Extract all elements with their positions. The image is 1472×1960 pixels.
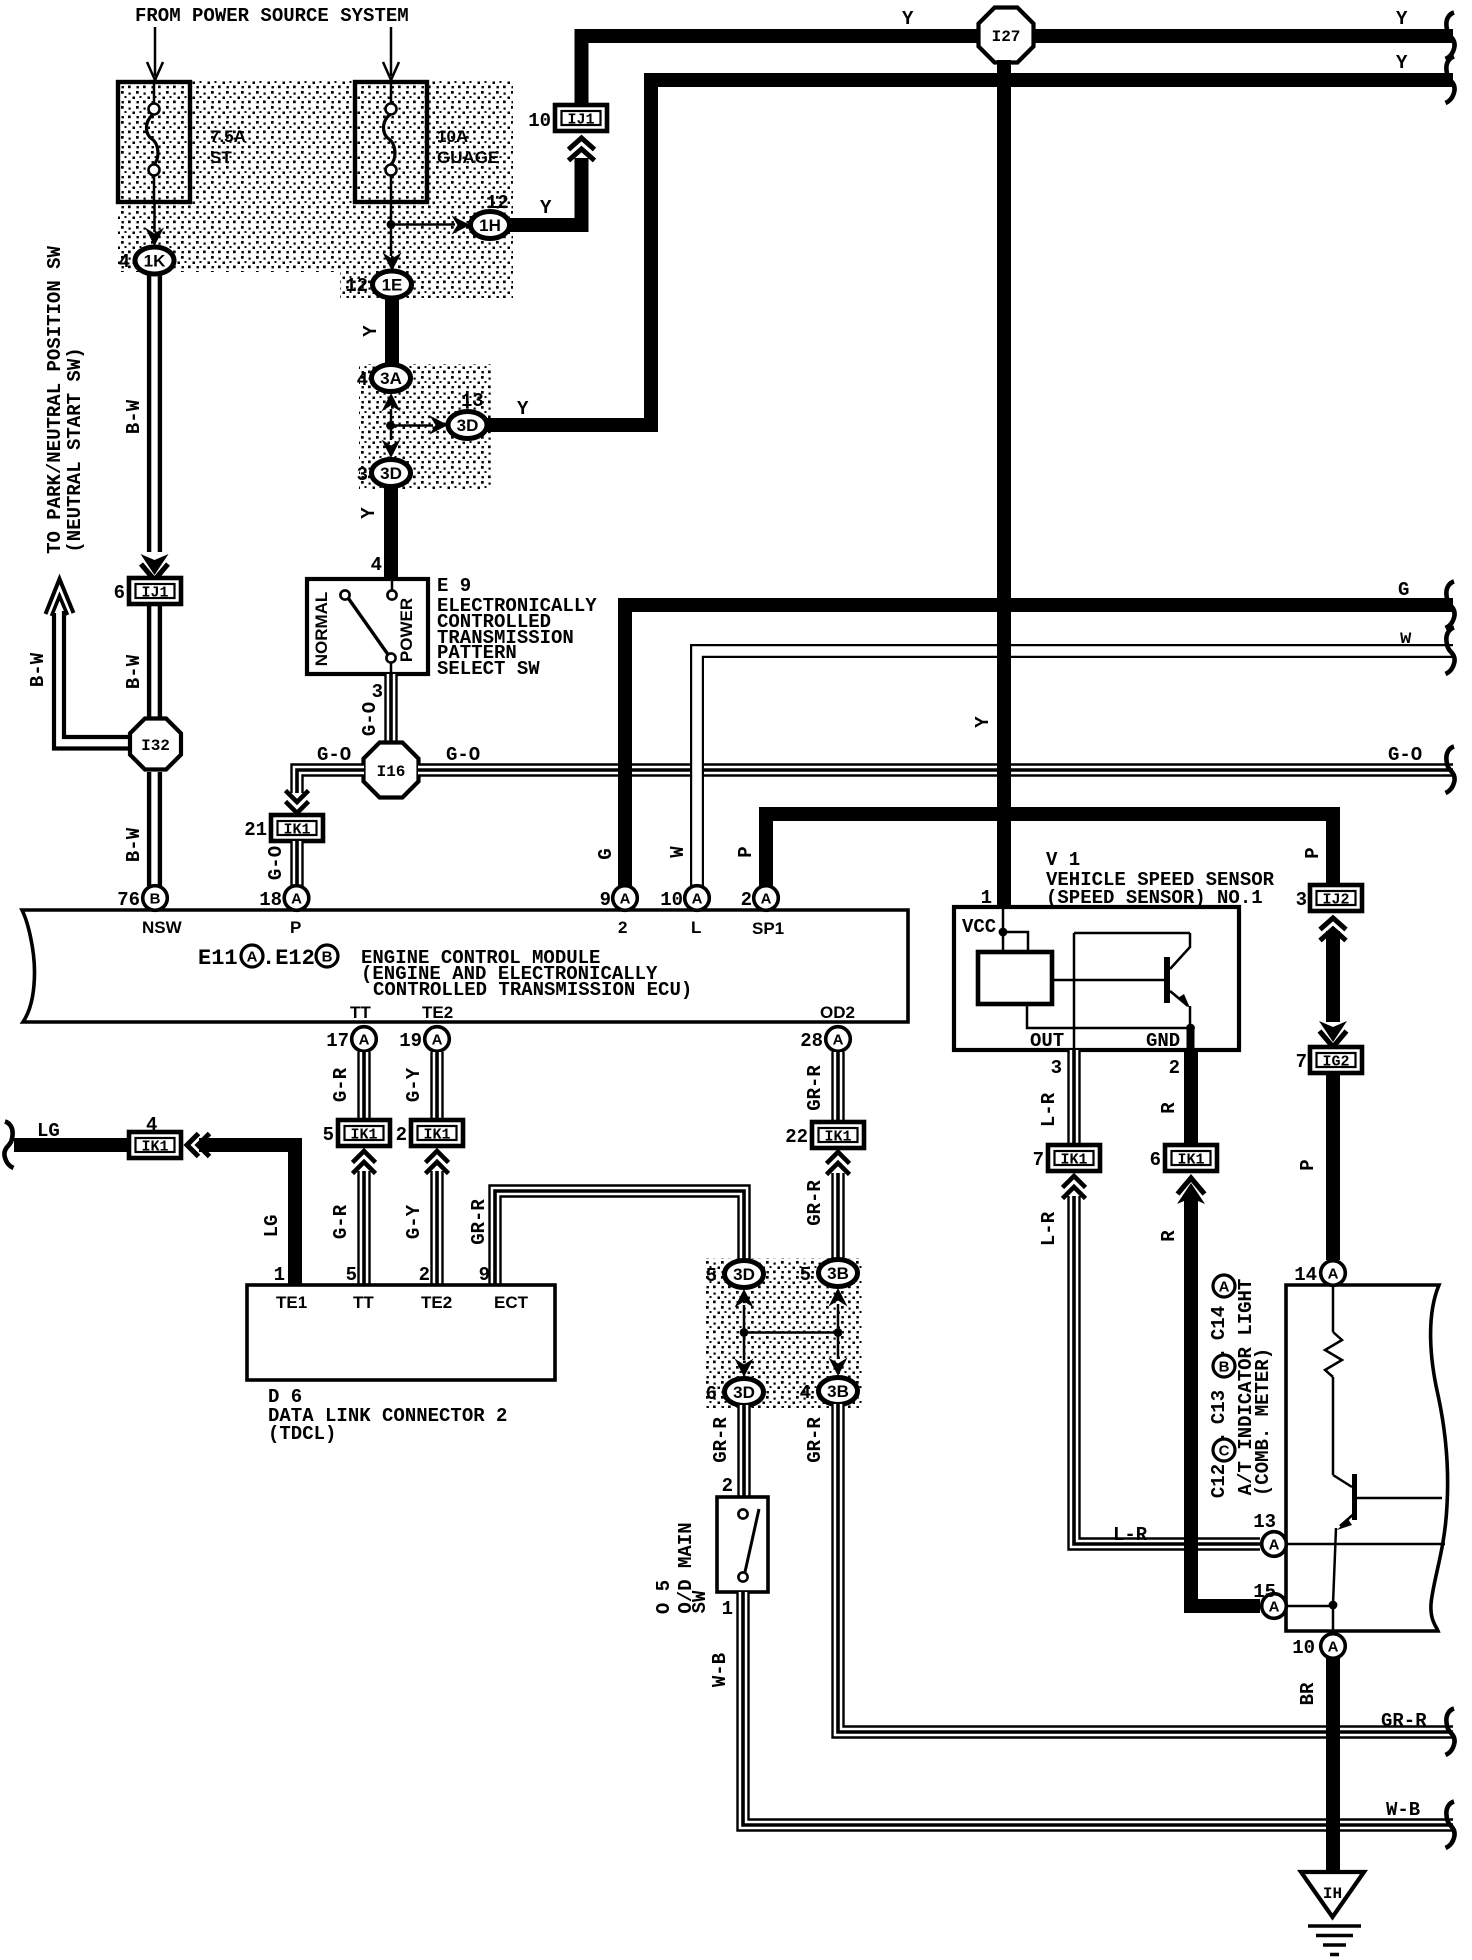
brace at right end of W bbox=[1446, 628, 1455, 675]
wire W-B from O/D main sw to right edge bbox=[743, 1592, 1453, 1825]
svg-text:1K: 1K bbox=[144, 252, 166, 271]
svg-text:IK1: IK1 bbox=[283, 822, 310, 839]
junction connector I27 bbox=[979, 8, 1034, 63]
svg-text:SP1: SP1 bbox=[752, 919, 784, 938]
svg-text:IJ1: IJ1 bbox=[567, 112, 594, 129]
pin number 13 of comb. meter bbox=[1253, 1511, 1276, 1533]
svg-text:4: 4 bbox=[146, 1114, 157, 1136]
wire label G vertical bbox=[595, 848, 617, 859]
svg-text:14: 14 bbox=[1294, 1264, 1317, 1286]
pin number 4 of 3A bbox=[357, 369, 368, 391]
comb. meter pin 14 A bbox=[1321, 1261, 1346, 1286]
connector 3D pin 6 bbox=[725, 1379, 764, 1406]
pin number 6 of 3D bbox=[706, 1383, 717, 1405]
svg-text:2: 2 bbox=[741, 889, 752, 911]
svg-text:(TDCL): (TDCL) bbox=[268, 1423, 336, 1445]
wire label G-Y lower bbox=[403, 1204, 425, 1239]
connector 3D pin 5 bbox=[725, 1261, 764, 1288]
wire label R lower bbox=[1158, 1230, 1180, 1242]
svg-text:G-Y: G-Y bbox=[403, 1067, 425, 1102]
pin number 2 of DLC2 bbox=[419, 1264, 430, 1286]
pin number 5 of IK1 bbox=[323, 1124, 334, 1146]
wire B-W from 1K to IJ1 bbox=[149, 274, 160, 552]
wire label Y on bus 2 right bbox=[1396, 52, 1408, 74]
wire label Y on bus 1 right bbox=[1396, 8, 1408, 30]
svg-text:Y: Y bbox=[358, 507, 380, 519]
svg-text:POWER: POWER bbox=[397, 598, 416, 662]
pin number 76 of ECM bbox=[117, 889, 140, 911]
vehicle speed sensor V1 box bbox=[954, 907, 1239, 1050]
wire label BR bbox=[1297, 1682, 1319, 1705]
fuse value label 10A GUAGE bbox=[437, 127, 499, 167]
junction connector I32 bbox=[130, 719, 181, 770]
svg-text:9: 9 bbox=[600, 889, 611, 911]
svg-text:5: 5 bbox=[706, 1265, 717, 1287]
svg-text:2: 2 bbox=[396, 1124, 407, 1146]
wire G-R from IK1 to DLC2 TT bbox=[357, 1171, 370, 1286]
wire Y from 3D to pattern select sw bbox=[384, 486, 398, 581]
ECM bottom pin name OD2 bbox=[820, 1003, 855, 1022]
brace at right end of W-B bbox=[1446, 1802, 1455, 1849]
pin number 7 of IG2 bbox=[1296, 1051, 1307, 1073]
wire GR-R from 3B to right edge bbox=[838, 1404, 1453, 1732]
svg-text:3: 3 bbox=[357, 464, 368, 486]
svg-text:A: A bbox=[1328, 1639, 1339, 1656]
fuse 10A GUAGE bbox=[355, 82, 427, 202]
wire P from IG2 to comb. meter pin 14 bbox=[1326, 1073, 1340, 1260]
svg-text:19: 19 bbox=[399, 1030, 422, 1052]
comb. meter pin 15 A bbox=[1262, 1594, 1287, 1619]
svg-text:E 9: E 9 bbox=[437, 575, 471, 597]
svg-text:9: 9 bbox=[479, 1264, 490, 1286]
svg-text:I27: I27 bbox=[992, 28, 1021, 46]
svg-text:2: 2 bbox=[1169, 1057, 1180, 1079]
pin number 4 of select sw bbox=[371, 554, 382, 576]
pin number 12 of 1H bbox=[486, 192, 509, 214]
svg-text:A: A bbox=[692, 891, 703, 908]
wire to connector 1H bbox=[391, 216, 470, 235]
component label D6 bbox=[268, 1386, 507, 1445]
svg-text:CONTROLLED TRANSMISSION ECU): CONTROLLED TRANSMISSION ECU) bbox=[373, 979, 692, 1001]
stipple shading around connectors 3D/3B bbox=[706, 1258, 862, 1408]
svg-text:IK1: IK1 bbox=[350, 1127, 377, 1144]
pin number 4 of IK1 bbox=[146, 1114, 157, 1136]
svg-text:C12: C12 bbox=[1208, 1464, 1230, 1498]
svg-text:22: 22 bbox=[785, 1126, 808, 1148]
svg-text:G-R: G-R bbox=[330, 1067, 352, 1102]
power feed arrow into fuse ST bbox=[147, 27, 163, 80]
wire GR-R from DLC2 ECT to 3D bbox=[495, 1191, 744, 1286]
ECM pin 9 A bbox=[613, 886, 638, 911]
pin number 6 of IK1 bbox=[1150, 1149, 1161, 1171]
connector IK1 pin 2 bbox=[411, 1120, 463, 1146]
wire label Y vertical bbox=[972, 716, 994, 728]
svg-text:G-O: G-O bbox=[446, 744, 480, 766]
wire G-O from I16 to IK1 pin 21 bbox=[297, 770, 364, 793]
pin number 3 of select sw bbox=[372, 681, 383, 703]
wire label B-W lower bbox=[123, 827, 145, 862]
svg-text:GND: GND bbox=[1146, 1030, 1180, 1052]
svg-text:A: A bbox=[620, 891, 631, 908]
svg-text:OUT: OUT bbox=[1030, 1030, 1064, 1052]
svg-text:BR: BR bbox=[1297, 1682, 1319, 1705]
ECM pin name L bbox=[691, 918, 701, 937]
svg-text:IK1: IK1 bbox=[824, 1129, 851, 1146]
wire Y from 3D to bus 2 bbox=[486, 418, 658, 432]
switch position label NORMAL bbox=[312, 592, 331, 667]
wire label G-O at right edge bbox=[1388, 744, 1422, 766]
svg-text:.: . bbox=[1208, 1347, 1230, 1358]
connector IG2 pin 7 bbox=[1310, 1047, 1362, 1073]
svg-text:B: B bbox=[150, 891, 161, 908]
svg-text:A: A bbox=[247, 949, 258, 966]
V1 VCC node bbox=[999, 909, 1028, 950]
svg-text:5: 5 bbox=[800, 1264, 811, 1286]
svg-text:I16: I16 bbox=[377, 763, 406, 781]
arrow into IK1 pin 5 bbox=[353, 1151, 376, 1174]
svg-text:GR-R: GR-R bbox=[468, 1199, 490, 1245]
svg-text:17: 17 bbox=[326, 1030, 349, 1052]
svg-text:1: 1 bbox=[274, 1264, 285, 1286]
wire G-O from select sw to I16 bbox=[384, 674, 397, 744]
wire label GR-R at O/D sw bbox=[710, 1417, 732, 1463]
svg-text:L: L bbox=[691, 918, 701, 937]
wire Y bus 2 (second horizontal) bbox=[651, 80, 1453, 425]
svg-text:IJ2: IJ2 bbox=[1322, 892, 1349, 909]
wire label L-R lower bbox=[1038, 1211, 1060, 1246]
transistor in comb. meter bbox=[1333, 1474, 1442, 1604]
svg-text:3B: 3B bbox=[827, 1382, 849, 1401]
resistor in comb. meter bbox=[1325, 1285, 1342, 1475]
svg-text:NORMAL: NORMAL bbox=[312, 592, 331, 667]
stipple shading around connectors 3A/3D bbox=[359, 364, 491, 489]
connector IJ1 pin 6 bbox=[129, 578, 181, 604]
wire B-W from IJ1 to I32 bbox=[149, 604, 160, 718]
svg-text:B-W: B-W bbox=[123, 654, 145, 689]
pin number 6 of IJ1 bbox=[114, 582, 125, 604]
arrow into connector 3D pin 3 bbox=[382, 440, 401, 459]
svg-text:.: . bbox=[1208, 1431, 1230, 1442]
pin number 5 of 3D bbox=[706, 1265, 717, 1287]
power feed arrow into fuse GUAGE bbox=[383, 27, 399, 80]
svg-text:Y: Y bbox=[902, 8, 914, 30]
brace at left end of LG bbox=[4, 1122, 13, 1169]
wire Y bus 1 vertical riser bbox=[575, 43, 589, 105]
wire to connector 3D pin 13 bbox=[391, 416, 449, 435]
arrow into connector 1E bbox=[383, 253, 402, 272]
svg-text:7: 7 bbox=[1296, 1051, 1307, 1073]
V1 collector loop wire bbox=[1074, 933, 1190, 1048]
wire label G-O right of I16 bbox=[446, 744, 480, 766]
svg-text:21: 21 bbox=[244, 819, 267, 841]
wire label LG at left edge bbox=[37, 1120, 60, 1142]
wire Y from 1E to 3A bbox=[385, 298, 399, 365]
wire label W-B vertical bbox=[709, 1653, 731, 1687]
ECM pin 10 A bbox=[685, 886, 710, 911]
pattern select switch E9 box bbox=[307, 579, 428, 674]
wire label Y bbox=[540, 197, 552, 219]
wire label P vertical at IJ2 bbox=[1302, 847, 1324, 858]
wire G-Y from IK1 to DLC2 TE2 bbox=[430, 1171, 443, 1286]
pin number 1 of DLC2 bbox=[274, 1264, 285, 1286]
wire junction below 3A bbox=[386, 409, 395, 440]
svg-text:W-B: W-B bbox=[1386, 1799, 1420, 1821]
arrow into IG2 bbox=[1319, 1021, 1347, 1047]
svg-text:2: 2 bbox=[618, 918, 627, 937]
svg-text:GR-R: GR-R bbox=[804, 1417, 826, 1463]
svg-text:A: A bbox=[833, 1032, 844, 1049]
svg-text:3B: 3B bbox=[827, 1264, 849, 1283]
comb. meter pin 10 A bbox=[1321, 1634, 1346, 1659]
pin number 10 of ECM bbox=[660, 889, 683, 911]
connector IJ1 pin 10 chevron bbox=[569, 138, 595, 161]
wire Y from I27 to speed sensor bbox=[997, 60, 1011, 907]
pin number 14 of comb. meter bbox=[1294, 1264, 1317, 1286]
ECM bottom pin 28 A bbox=[826, 1027, 851, 1052]
wire R from V1 GND to IK1 pin 6 bbox=[1184, 1050, 1198, 1143]
svg-text:w: w bbox=[1400, 627, 1412, 649]
svg-text:ECT: ECT bbox=[494, 1293, 529, 1312]
svg-text:Y: Y bbox=[1396, 52, 1408, 74]
svg-text:A: A bbox=[432, 1032, 443, 1049]
svg-text:G-Y: G-Y bbox=[403, 1204, 425, 1239]
svg-text:2: 2 bbox=[722, 1475, 733, 1497]
svg-text:A: A bbox=[761, 891, 772, 908]
ECM pin 76 B bbox=[143, 886, 168, 911]
svg-text:A: A bbox=[291, 891, 302, 908]
switch position label POWER bbox=[397, 598, 416, 662]
connector IK1 pin 5 bbox=[338, 1120, 390, 1146]
ECM pin name NSW bbox=[142, 918, 183, 937]
connector 3A pin 4 bbox=[372, 365, 411, 392]
connector 3D pin 3 bbox=[372, 460, 411, 487]
ground connector IH bbox=[1301, 1872, 1364, 1917]
svg-text:6: 6 bbox=[706, 1383, 717, 1405]
comb. meter pin 13 A bbox=[1262, 1532, 1287, 1557]
wire label L-R horizontal bbox=[1113, 1524, 1148, 1546]
svg-text:10: 10 bbox=[528, 110, 551, 132]
svg-text:10A: 10A bbox=[437, 127, 468, 146]
pin number 17 of ECM bbox=[326, 1030, 349, 1052]
arrow into IK1 pin 7 bbox=[1063, 1176, 1086, 1199]
svg-text:B-W: B-W bbox=[123, 399, 145, 434]
V1 emitter to GND wire bbox=[1027, 1004, 1195, 1048]
wire label GR-R at ECT bbox=[468, 1199, 490, 1245]
svg-text:TE1: TE1 bbox=[276, 1293, 307, 1312]
ECM pin name 2 bbox=[618, 918, 627, 937]
svg-text:E11: E11 bbox=[198, 946, 238, 971]
svg-text:13: 13 bbox=[1253, 1511, 1276, 1533]
svg-text:I32: I32 bbox=[141, 737, 170, 755]
svg-text:1: 1 bbox=[722, 1598, 733, 1620]
wire label B-W middle bbox=[123, 654, 145, 689]
pin number 5 of 3B bbox=[800, 1264, 811, 1286]
arrow into IK1 pin 21 bbox=[286, 791, 309, 814]
wire Y from 1H to bus corner bbox=[508, 158, 582, 225]
svg-text:A: A bbox=[1328, 1266, 1339, 1283]
svg-text:L-R: L-R bbox=[1038, 1092, 1060, 1127]
svg-text:G-O: G-O bbox=[359, 702, 381, 736]
connector IK1 pin 21 bbox=[271, 815, 323, 841]
svg-text:B: B bbox=[322, 949, 333, 966]
DLC2 pin name TE2 bbox=[421, 1293, 452, 1312]
svg-text:G-O: G-O bbox=[317, 744, 351, 766]
V1 wire base bbox=[1052, 979, 1164, 982]
ECM bottom pin 19 A bbox=[425, 1027, 450, 1052]
connector 1E pin 12 bbox=[373, 271, 412, 298]
svg-text:1H: 1H bbox=[479, 216, 501, 235]
svg-text:Y: Y bbox=[360, 325, 382, 337]
svg-text:G: G bbox=[595, 848, 617, 859]
svg-text:(COMB. METER): (COMB. METER) bbox=[1252, 1348, 1274, 1496]
arrow into IK1 pin 6 bbox=[1177, 1178, 1205, 1204]
wire label G at right edge bbox=[1398, 579, 1409, 601]
branch arrow to park/neutral position sw bbox=[46, 579, 130, 749]
svg-text:C: C bbox=[1219, 1443, 1230, 1460]
svg-text:W: W bbox=[667, 846, 689, 858]
wire B-W from I32 to ECM pin 76 bbox=[149, 772, 160, 886]
wire LG from IK1 to DLC2 TE1 bbox=[199, 1145, 295, 1286]
pin number 19 of ECM bbox=[399, 1030, 422, 1052]
arrow into IK1 pin 22 bbox=[827, 1152, 850, 1175]
brace at right end of G-O bbox=[1446, 747, 1455, 794]
ECM bottom pin 17 A bbox=[352, 1027, 377, 1052]
svg-text:76: 76 bbox=[117, 889, 140, 911]
DLC2 pin name TE1 bbox=[276, 1293, 307, 1312]
svg-text:5: 5 bbox=[346, 1264, 357, 1286]
svg-text:GR-R: GR-R bbox=[804, 1065, 826, 1111]
svg-text:1: 1 bbox=[981, 887, 992, 909]
wire R from IK1 to comb. meter pin 15 bbox=[1191, 1198, 1260, 1606]
svg-text:V 1: V 1 bbox=[1046, 849, 1080, 871]
svg-text:3D: 3D bbox=[733, 1383, 755, 1402]
pin number 7 of IK1 bbox=[1033, 1149, 1044, 1171]
pin number 12 of 1E bbox=[345, 275, 368, 297]
svg-text:G: G bbox=[1398, 579, 1409, 601]
svg-text:IJ1: IJ1 bbox=[141, 585, 168, 602]
svg-text:R: R bbox=[1158, 1230, 1180, 1242]
DLC2 pin name ECT bbox=[494, 1293, 529, 1312]
ECM pin name P bbox=[290, 918, 301, 937]
svg-text:18: 18 bbox=[259, 889, 282, 911]
svg-text:LG: LG bbox=[261, 1215, 283, 1238]
arrow into 3B pin 5 bbox=[829, 1288, 848, 1307]
wire label G-R upper bbox=[330, 1067, 352, 1102]
wire LG from left edge to IK1 pin 4 bbox=[14, 1138, 130, 1152]
pin number 28 of ECM bbox=[800, 1030, 823, 1052]
svg-text:.E12: .E12 bbox=[262, 946, 315, 971]
wire BR from comb. meter to ground bbox=[1326, 1658, 1340, 1872]
pin number 13 of 3D bbox=[461, 390, 484, 412]
svg-text:6: 6 bbox=[114, 582, 125, 604]
pin number 10 of IJ1 bbox=[528, 110, 551, 132]
svg-text:Y: Y bbox=[517, 398, 529, 420]
brace at right end of G bbox=[1446, 582, 1455, 629]
wire GR-R from IK1 to 3B bbox=[831, 1173, 844, 1260]
pin number 9 of DLC2 bbox=[479, 1264, 490, 1286]
svg-text:2: 2 bbox=[419, 1264, 430, 1286]
ECM bottom pin name TT bbox=[350, 1003, 371, 1022]
wire label G-Y upper bbox=[403, 1067, 425, 1102]
svg-text:IK1: IK1 bbox=[423, 1127, 450, 1144]
svg-text:4: 4 bbox=[371, 554, 382, 576]
arrow into connector IJ1 pin 6 bbox=[141, 554, 169, 580]
V1 label VCC bbox=[962, 916, 996, 938]
svg-text:A: A bbox=[359, 1032, 370, 1049]
svg-text:5: 5 bbox=[323, 1124, 334, 1146]
svg-text:Y: Y bbox=[972, 716, 994, 728]
svg-text:OD2: OD2 bbox=[820, 1003, 855, 1022]
svg-text:12: 12 bbox=[345, 275, 368, 297]
wire label B-W upper bbox=[123, 399, 145, 434]
V1 label GND bbox=[1146, 1030, 1180, 1052]
svg-text:P: P bbox=[1302, 847, 1324, 858]
ECM pin SP1 A bbox=[754, 886, 779, 911]
svg-text:GUAGE: GUAGE bbox=[437, 148, 499, 167]
connector IK1 pin 4 bbox=[129, 1132, 181, 1158]
svg-text:G-R: G-R bbox=[330, 1204, 352, 1239]
svg-text:IH: IH bbox=[1323, 1885, 1342, 1903]
wire label W vertical bbox=[667, 846, 689, 858]
pin number 1 of O/D main sw bbox=[722, 1598, 733, 1620]
wire label G-O at ECM bbox=[265, 846, 287, 880]
svg-text:TT: TT bbox=[353, 1293, 374, 1312]
wire label LG vertical bbox=[261, 1215, 283, 1238]
svg-text:3D: 3D bbox=[380, 464, 402, 483]
wire label G-O left bbox=[317, 744, 351, 766]
fuse value label 7.5A ST bbox=[210, 127, 246, 167]
svg-text:G-O: G-O bbox=[265, 846, 287, 880]
V1 transistor Q bbox=[1164, 933, 1190, 1028]
svg-text:1E: 1E bbox=[382, 276, 403, 295]
ground symbol bbox=[1308, 1926, 1361, 1955]
connector IJ1 pin 10 bbox=[555, 105, 607, 131]
wire label P vertical at SP1 bbox=[735, 846, 757, 857]
arrow into 3D pin 5 bbox=[735, 1289, 754, 1308]
svg-text:(NEUTRAL START SW): (NEUTRAL START SW) bbox=[64, 347, 86, 552]
pin number 2 of O/D main sw bbox=[722, 1475, 733, 1497]
connector 1H pin 12 bbox=[471, 212, 510, 239]
svg-text:P: P bbox=[1297, 1159, 1319, 1170]
svg-text:IK1: IK1 bbox=[1060, 1152, 1087, 1169]
component label E9 bbox=[437, 575, 597, 680]
svg-text:R: R bbox=[1158, 1102, 1180, 1114]
component label O5 O/D MAIN SW bbox=[653, 1522, 711, 1614]
wire label GR-R at 3B bbox=[804, 1417, 826, 1463]
wire Y bus 1 (top horizontal) bbox=[575, 29, 1454, 43]
component label V1 bbox=[1046, 849, 1275, 909]
svg-text:10: 10 bbox=[660, 889, 683, 911]
wire label Y at 1E bbox=[360, 325, 382, 337]
wire P from ECM pin SP1 to IJ2 bbox=[766, 814, 1333, 886]
arrow into connector 3A bbox=[382, 393, 401, 412]
svg-text:W-B: W-B bbox=[709, 1653, 731, 1687]
svg-text:G-O: G-O bbox=[1388, 744, 1422, 766]
wire label W-B at right edge bbox=[1386, 1799, 1420, 1821]
svg-text:TE2: TE2 bbox=[421, 1293, 452, 1312]
ECM pin 18 A bbox=[284, 886, 309, 911]
svg-text:3: 3 bbox=[372, 681, 383, 703]
wire P from IJ2 to IG2 bbox=[1326, 931, 1340, 1022]
wire L-R from V1 OUT to IK1 pin 7 bbox=[1067, 1050, 1080, 1143]
pin number 2 of ECM SP1 bbox=[741, 889, 752, 911]
title: FROM POWER SOURCE SYSTEM bbox=[135, 5, 409, 27]
svg-text:B: B bbox=[1219, 1359, 1230, 1376]
arrow into connector 1K bbox=[145, 202, 164, 246]
connector IJ2 pin 3 bbox=[1310, 885, 1362, 911]
svg-text:FROM POWER SOURCE SYSTEM: FROM POWER SOURCE SYSTEM bbox=[135, 5, 409, 27]
pin number 4 of 1K bbox=[119, 251, 130, 273]
